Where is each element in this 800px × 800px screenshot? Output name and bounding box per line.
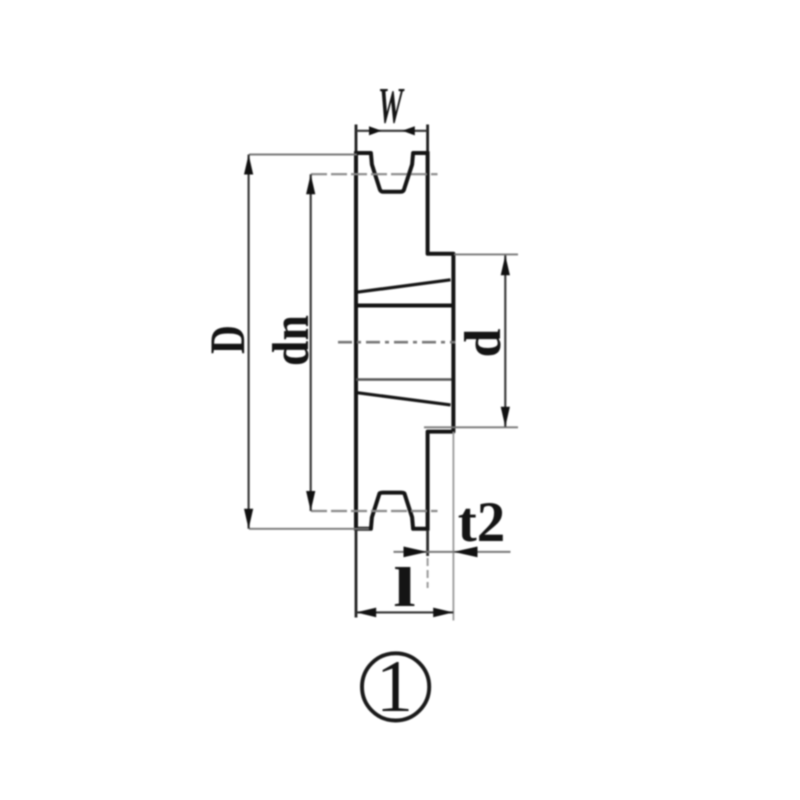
pulley right edge, hub step and hub right face xyxy=(428,151,454,530)
upper groove pitch line (dn extension) xyxy=(311,173,438,175)
pulley body left edge xyxy=(354,151,358,530)
dimension t2 line xyxy=(394,551,511,553)
bore line lower xyxy=(356,378,452,380)
body right edge extension below (t2 left extension, faint dashed part) xyxy=(427,558,429,588)
dimension dn bottom arrowhead xyxy=(306,491,315,511)
dimension d top arrowhead xyxy=(501,255,510,275)
dimension t2 left arrowhead xyxy=(404,547,428,558)
lower groove pitch line (dn extension) xyxy=(311,510,438,512)
centerline (axis, dash-dot) xyxy=(338,341,456,344)
hub right edge extension below (t2 / l right extension) xyxy=(452,432,454,621)
dimension dn line xyxy=(310,174,312,511)
dimension W right arrowhead xyxy=(402,126,415,135)
dimension D bottom arrowhead xyxy=(244,509,253,529)
svg-text:l: l xyxy=(393,557,416,619)
bore line upper xyxy=(356,304,452,308)
dimension D extension line top xyxy=(249,154,357,156)
bore taper line lower xyxy=(356,393,451,405)
dimension d bottom arrowhead xyxy=(501,407,510,427)
body right edge extension below (t2 left extension, dark part) xyxy=(426,531,429,556)
dimension W left arrowhead xyxy=(369,126,382,135)
dimension l line xyxy=(356,611,453,613)
dimension W line xyxy=(356,130,428,132)
svg-text:t2: t2 xyxy=(458,491,505,554)
dimension D top arrowhead xyxy=(244,155,253,175)
dimension D extension line bottom xyxy=(249,528,369,530)
dimension t2 right arrowhead xyxy=(454,547,478,558)
dimension dn top arrowhead xyxy=(306,174,315,194)
dimension d extension line top xyxy=(454,253,518,255)
callout circle xyxy=(362,653,429,720)
dimension d line xyxy=(504,255,506,427)
bore taper line upper xyxy=(356,280,451,293)
svg-text:D: D xyxy=(200,325,255,354)
pulley bottom face and lower V-groove outline xyxy=(356,493,428,529)
svg-text:W: W xyxy=(378,77,405,134)
svg-text:d: d xyxy=(455,328,512,357)
dimension D line xyxy=(248,155,250,529)
dimension l left arrowhead xyxy=(356,608,376,618)
pulley body right edge extension (top, for W dimension) xyxy=(426,125,429,154)
pulley body left edge extension (top, for W dimension) xyxy=(355,125,358,154)
svg-text:dn: dn xyxy=(261,315,319,366)
body left edge extension below (l left extension) xyxy=(355,531,358,618)
dimension d extension line bottom xyxy=(424,426,518,428)
svg-text:1: 1 xyxy=(376,646,413,728)
dimension l right arrowhead xyxy=(433,608,453,618)
pulley top face and upper V-groove outline xyxy=(356,153,428,192)
